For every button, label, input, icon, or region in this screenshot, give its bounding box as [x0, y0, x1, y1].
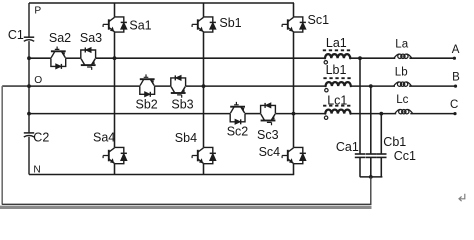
terminal A — [453, 57, 456, 60]
wire DC bus vertical — [28, 3, 30, 175]
junction O bus / phase-B clamp tap — [27, 84, 31, 88]
svg-text:Cb1: Cb1 — [383, 135, 406, 149]
svg-text:La: La — [395, 39, 408, 51]
svg-text:Lc: Lc — [396, 94, 408, 106]
svg-text:B: B — [452, 72, 460, 84]
inductor Lc1 — [323, 106, 352, 120]
IGBT Sb3 (bidirectional switch half, diode loop above) — [171, 75, 186, 97]
svg-text:N: N — [33, 164, 40, 175]
wire Sc3 to phase C node and on to Lc1 — [275, 113, 325, 115]
node P (positive DC rail) — [29, 2, 294, 4]
junction phase A leg midpoint — [113, 56, 117, 60]
svg-text:Cc1: Cc1 — [394, 149, 416, 163]
junction O bus / phase-A clamp tap — [27, 56, 31, 60]
wire Cb1 branch — [370, 86, 372, 177]
svg-text:Sb3: Sb3 — [171, 98, 193, 112]
svg-text:Sb4: Sb4 — [175, 131, 197, 145]
wire Sa4 emitter to N rail — [114, 164, 116, 175]
wire Lb to terminal B — [409, 85, 455, 87]
inductor La — [394, 54, 412, 58]
capacitor C2 — [24, 133, 34, 137]
terminal B — [454, 85, 457, 88]
svg-text:Lc1: Lc1 — [327, 93, 347, 107]
svg-text:Lb1: Lb1 — [326, 63, 347, 77]
capacitor Ca1 — [355, 154, 365, 157]
wire Lc1 to Lc — [351, 113, 397, 115]
wire O node stub to neutral return — [2, 85, 29, 87]
wire O bus to Sb2 — [29, 85, 140, 87]
wire Lc to terminal C — [410, 113, 455, 115]
capacitor Cb1 — [366, 154, 376, 157]
wire Sc1 emitter to Sc4 collector (phase leg) — [293, 32, 295, 147]
junction phase C leg midpoint — [292, 112, 296, 116]
wire neutral return left side — [1, 86, 3, 205]
IGBT Sa1 — [103, 17, 127, 32]
terminal C — [453, 112, 456, 115]
svg-text:C: C — [450, 99, 458, 111]
IGBT Sc1 — [282, 17, 306, 32]
svg-text:C1: C1 — [8, 28, 24, 42]
svg-text:Sc4: Sc4 — [259, 145, 281, 159]
IGBT Sa2 (bidirectional switch half, diode loop below) — [51, 47, 66, 69]
svg-text:Sc3: Sc3 — [257, 128, 279, 142]
IGBT Sa4 — [103, 147, 127, 163]
svg-text:Lb: Lb — [395, 67, 408, 79]
svg-text:Sa3: Sa3 — [80, 31, 102, 45]
wire Sc2 to Sc3 — [245, 113, 261, 115]
wire Sa1 emitter to Sa4 collector (phase leg) — [114, 32, 116, 147]
svg-text:Sc2: Sc2 — [227, 125, 249, 139]
IGBT Sc4 — [282, 147, 306, 163]
svg-text:A: A — [452, 44, 460, 56]
junction phase B leg midpoint — [202, 84, 206, 88]
wire Sa3 to phase A node and on to La1 — [96, 57, 325, 59]
wire Sc1 collector stub — [293, 3, 295, 17]
IGBT Sc2 (bidirectional switch half, diode loop below) — [230, 102, 245, 124]
inductor Lb1 — [323, 78, 352, 92]
wire Sb4 emitter to N rail — [203, 164, 205, 175]
wire Sb1 collector stub — [203, 3, 205, 17]
junction filter neutral junction — [369, 175, 373, 179]
svg-text:Sc1: Sc1 — [308, 13, 330, 27]
IGBT Sb1 — [192, 17, 216, 32]
svg-text:Sb2: Sb2 — [136, 98, 158, 112]
svg-text:P: P — [34, 6, 41, 17]
inductor Lb — [394, 82, 412, 86]
wire Sb1 emitter to Sb4 collector (phase leg) — [203, 32, 205, 147]
svg-text:Sb1: Sb1 — [219, 16, 241, 30]
svg-text:O: O — [34, 75, 42, 86]
svg-text:Sa4: Sa4 — [93, 131, 115, 145]
node N (negative DC rail) — [29, 174, 294, 176]
wire Sa2 to Sa3 — [66, 57, 81, 59]
junction phase B filter-cap tap — [369, 84, 373, 88]
IGBT Sc3 (bidirectional switch half, diode loop above) — [261, 103, 276, 125]
wire Sa1 collector stub — [114, 3, 116, 17]
IGBT Sa3 (bidirectional switch half, diode loop above) — [81, 48, 96, 70]
wire Cc1 branch — [380, 114, 382, 177]
wire neutral return bottom to filter caps — [2, 177, 371, 204]
wire La to terminal A — [409, 57, 454, 59]
IGBT Sb4 — [192, 147, 216, 163]
wire Sc4 emitter to N rail — [293, 164, 295, 175]
svg-text:Sa1: Sa1 — [129, 19, 151, 33]
wire O bus to Sa2 — [29, 57, 51, 59]
wire O bus to Sc2 — [29, 113, 230, 115]
junction phase C filter-cap tap — [379, 112, 383, 116]
wire filter capacitor common bar — [360, 176, 383, 178]
IGBT Sb2 (bidirectional switch half, diode loop below) — [140, 74, 155, 96]
wire Sb3 to phase B node and on to Lb1 — [186, 85, 326, 87]
wire Lb1 to Lb — [351, 85, 395, 87]
svg-text:Sa2: Sa2 — [49, 31, 71, 45]
junction O bus / phase-C clamp tap — [27, 112, 31, 116]
wire Ca1 branch — [359, 58, 361, 177]
capacitor C1 — [24, 37, 34, 41]
wire Sb2 to Sb3 — [155, 85, 171, 87]
capacitor Cc1 — [376, 154, 386, 157]
svg-text:Ca1: Ca1 — [336, 140, 359, 154]
inductor La1 — [323, 50, 352, 64]
junction phase A filter-cap tap — [358, 56, 362, 60]
svg-text:C2: C2 — [33, 130, 49, 144]
svg-text:La1: La1 — [326, 36, 347, 50]
wire La1 to La — [350, 57, 395, 59]
inductor Lc — [395, 109, 413, 113]
